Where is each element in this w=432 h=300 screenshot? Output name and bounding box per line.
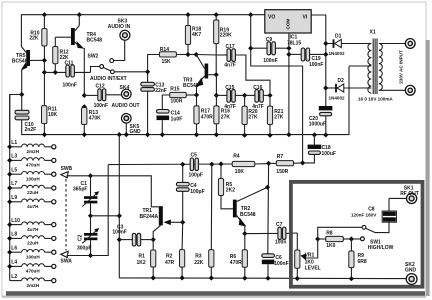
capacitor C4 100pF xyxy=(176,164,204,222)
svg-text:100nF: 100nF xyxy=(94,103,108,109)
node: TR4 emitter / C12 junction xyxy=(82,93,87,98)
svg-text:C17: C17 xyxy=(226,44,235,50)
svg-text:1N4002: 1N4002 xyxy=(329,96,346,101)
svg-text:100uH: 100uH xyxy=(26,176,40,181)
variable capacitor C1 365pF xyxy=(73,176,99,216)
node: bus C13 xyxy=(145,132,150,137)
node: bus R16 xyxy=(214,132,219,137)
node: rail junction at C9 stem xyxy=(248,12,253,17)
resistor R12 22K xyxy=(53,37,71,72)
transformer X1 xyxy=(349,29,405,101)
svg-text:100pF: 100pF xyxy=(190,189,204,195)
node: bus SK5 xyxy=(124,132,129,137)
node: bus IC1 COM xyxy=(286,132,291,137)
resistor R18 4K7 xyxy=(185,15,201,55)
capacitor C12 100nF xyxy=(84,84,121,109)
wire: main 0V bus xyxy=(22,66,349,134)
svg-text:R2: R2 xyxy=(166,254,173,260)
svg-text:LEVEL: LEVEL xyxy=(305,265,321,271)
node: stem C3 tap xyxy=(117,237,122,242)
svg-text:L1: L1 xyxy=(11,140,17,146)
jack SK3 AUDIO IN xyxy=(108,18,131,40)
svg-text:R3: R3 xyxy=(195,254,202,260)
node: C1/C2 junction xyxy=(88,213,93,218)
node: C4 top junction xyxy=(180,162,185,167)
capacitor C10 2n2F xyxy=(15,95,36,134)
capacitor C16 4n7F xyxy=(245,85,270,110)
node: bottom bus R6 xyxy=(242,276,247,281)
wire C1/C2 node to ground stem xyxy=(91,215,120,217)
svg-text:C12: C12 xyxy=(96,84,105,90)
svg-text:22uH: 22uH xyxy=(27,241,39,246)
resistor R9 6R8 xyxy=(349,239,367,279)
inductor L6 100uH xyxy=(10,245,56,259)
svg-text:4u7H: 4u7H xyxy=(27,204,39,209)
svg-text:BC548: BC548 xyxy=(87,37,103,43)
node: TR3 base junction xyxy=(194,52,199,57)
svg-text:BF244A: BF244A xyxy=(140,214,159,220)
svg-text:L3: L3 xyxy=(11,154,17,160)
inductor L1 2m2H xyxy=(10,140,56,154)
resistor R1 1K2 xyxy=(137,240,156,278)
svg-text:470R: 470R xyxy=(230,260,242,266)
node: R11 top / C11 junction xyxy=(42,70,47,75)
svg-text:SW2: SW2 xyxy=(88,54,99,60)
wire R10 node down to R11 xyxy=(43,60,45,72)
resistor R4 10K xyxy=(232,154,268,176)
wire SW2 pole to C13 node xyxy=(114,71,147,73)
node: R8 left junction xyxy=(315,236,320,241)
node: bus tap L8 xyxy=(7,236,12,241)
svg-text:R14: R14 xyxy=(160,47,169,53)
node: bus R13 xyxy=(82,132,87,137)
capacitor C15 4n7F xyxy=(216,85,244,110)
svg-text:2m2H: 2m2H xyxy=(27,149,40,154)
node: rail junction at TR4 collector xyxy=(77,12,82,17)
node: SWA/C2 junction xyxy=(88,253,93,258)
diode D2 1N4002 xyxy=(326,78,366,101)
svg-text:L2: L2 xyxy=(11,274,17,280)
node: R4/R7 junction xyxy=(266,161,271,166)
svg-text:27K: 27K xyxy=(248,115,258,121)
svg-text:R7: R7 xyxy=(277,154,284,160)
node: bus R17 xyxy=(194,132,199,137)
svg-text:L10: L10 xyxy=(11,218,20,224)
svg-text:1K2: 1K2 xyxy=(137,260,146,266)
node: bus tap L10 xyxy=(7,222,12,227)
svg-text:16 0 16V 100mA: 16 0 16V 100mA xyxy=(358,97,393,102)
svg-text:1u0F: 1u0F xyxy=(171,116,183,122)
svg-text:120nF 160V: 120nF 160V xyxy=(351,212,377,217)
svg-text:AUDIO IN: AUDIO IN xyxy=(108,24,131,30)
node: bus D-line xyxy=(323,132,328,137)
svg-text:220K: 220K xyxy=(220,33,232,39)
svg-text:22K: 22K xyxy=(29,36,39,42)
box: output attenuator enclosure xyxy=(291,182,423,287)
resistor R8 1K0 xyxy=(318,227,362,249)
svg-text:15K: 15K xyxy=(162,59,172,65)
svg-text:C9: C9 xyxy=(266,37,273,43)
capacitor C11 100nF xyxy=(63,61,91,89)
svg-text:X1: X1 xyxy=(370,29,376,35)
jack SK5 GND xyxy=(122,114,142,135)
svg-text:100uH: 100uH xyxy=(26,254,40,259)
svg-text:2m2H: 2m2H xyxy=(27,283,40,288)
inductor L8 22uH xyxy=(10,232,56,246)
resistor R3 22K xyxy=(194,164,214,278)
node: bottom bus R3 xyxy=(209,275,214,280)
wire C17 feedback path to R21 node xyxy=(235,55,270,95)
resistor R5 2K2 xyxy=(218,164,235,209)
node: rail junction at R19 xyxy=(214,12,219,17)
inductor L4 470uH xyxy=(10,260,56,274)
resistor R6 470R xyxy=(230,234,248,278)
svg-text:GND: GND xyxy=(130,129,142,135)
inductor L2 2m2H xyxy=(10,274,56,288)
node: R16 top / C15 wire junction xyxy=(214,93,219,98)
svg-text:150R: 150R xyxy=(276,169,288,175)
svg-text:78L15: 78L15 xyxy=(287,40,301,46)
node: bus tap L4 xyxy=(7,264,12,269)
node: bus tap L3 xyxy=(7,158,12,163)
wire emitter node to C7 xyxy=(245,232,278,234)
svg-text:L5: L5 xyxy=(11,167,17,173)
inductor L5 100uH xyxy=(10,167,56,181)
svg-text:100nF: 100nF xyxy=(274,261,288,267)
svg-text:C16: C16 xyxy=(253,85,262,91)
label 230V AC INPUT xyxy=(399,50,404,84)
node: bottom bus VR1 xyxy=(295,276,300,281)
node: bus tap L1 xyxy=(7,144,12,149)
svg-text:BC548: BC548 xyxy=(12,58,28,64)
svg-text:L4: L4 xyxy=(11,260,17,266)
resistor R14 15K xyxy=(148,47,188,72)
node: bottom bus R2 xyxy=(180,275,185,280)
node: TR3 collector / R19 junction xyxy=(214,72,219,77)
svg-text:4u7H: 4u7H xyxy=(27,227,39,232)
svg-text:L7: L7 xyxy=(11,181,17,187)
node: bus ground stem xyxy=(117,132,122,137)
capacitor C8 120nF 160V xyxy=(351,198,397,222)
jack SK1 RF OUT xyxy=(389,185,419,203)
resistor R10 22K xyxy=(29,15,47,61)
svg-text:GND: GND xyxy=(405,267,417,273)
svg-text:SWB: SWB xyxy=(61,166,73,172)
wire SWA node to VFO tuned line xyxy=(91,165,109,256)
svg-text:D1: D1 xyxy=(335,33,342,39)
node: TR2 collector tap xyxy=(265,185,270,190)
svg-text:100nF: 100nF xyxy=(112,229,126,235)
node: stem C1/C2 tap xyxy=(117,213,122,218)
terminal: AC input bottom xyxy=(405,85,415,95)
capacitor C19 100nF xyxy=(289,48,326,68)
resistor R16 27K xyxy=(214,75,231,135)
svg-text:C2: C2 xyxy=(78,234,84,241)
capacitor C14 1u0F xyxy=(157,110,183,135)
transistor TR3 xyxy=(183,55,216,96)
node: bottom bus C6 xyxy=(265,276,270,281)
node: R7 right / C18 / +15V junction xyxy=(300,160,305,165)
svg-text:4n7F: 4n7F xyxy=(224,104,236,110)
wire VI to rectifier line xyxy=(311,15,326,106)
node: SW2/R14/C13 junction xyxy=(145,69,150,74)
resistor R20 27K xyxy=(242,95,258,135)
svg-text:470K: 470K xyxy=(89,116,101,122)
svg-text:RF OUT: RF OUT xyxy=(400,191,419,197)
svg-text:22nF: 22nF xyxy=(155,88,167,94)
svg-text:100pF: 100pF xyxy=(189,172,203,178)
svg-text:L8: L8 xyxy=(11,232,17,238)
node: C19 right junction xyxy=(323,52,328,57)
svg-text:R15: R15 xyxy=(170,86,179,92)
capacitor C5 100pF xyxy=(189,153,203,179)
node: C3 right / R1 / TR1 source junction xyxy=(151,237,156,242)
wire TR5 emitter node to inductor bus xyxy=(10,95,22,148)
svg-text:BC548: BC548 xyxy=(183,83,199,89)
capacitor C9 100nF xyxy=(251,37,289,64)
wire: ground stem xyxy=(118,135,120,278)
svg-text:C7: C7 xyxy=(276,222,283,228)
capacitor C3 100nF xyxy=(112,225,153,246)
svg-text:C11: C11 xyxy=(65,61,74,67)
svg-text:C15: C15 xyxy=(225,85,234,91)
node: R12 bottom junction xyxy=(53,70,58,75)
capacitor C6 100nF xyxy=(262,254,289,278)
wire: +15V feed to VFO section xyxy=(251,15,303,163)
jack SK4 AUDIO OUT xyxy=(112,85,140,109)
switch SWB wiper xyxy=(61,166,91,178)
wire: VFO node line y=164 xyxy=(108,163,232,166)
wire R18 node to TR3 base node xyxy=(188,54,196,56)
node: R21 top junction xyxy=(267,93,272,98)
svg-text:SWA: SWA xyxy=(61,258,73,264)
svg-text:365pF: 365pF xyxy=(73,187,87,193)
svg-text:SK4: SK4 xyxy=(120,85,130,91)
svg-text:HIGH/LOW: HIGH/LOW xyxy=(368,245,394,251)
svg-text:L9: L9 xyxy=(11,195,17,201)
svg-text:10K: 10K xyxy=(235,169,245,175)
regulator IC1 78L15 xyxy=(265,10,311,135)
svg-text:BC548: BC548 xyxy=(240,212,256,218)
svg-text:R1: R1 xyxy=(139,254,146,260)
node: D1 junction xyxy=(323,41,328,46)
svg-text:100R: 100R xyxy=(171,98,183,104)
svg-text:27K: 27K xyxy=(221,114,231,120)
svg-text:470uH: 470uH xyxy=(26,163,40,168)
node: R13 top junction xyxy=(82,104,87,109)
transistor TR5 xyxy=(12,47,44,95)
resistor R11 10K xyxy=(42,72,58,134)
svg-text:2K2: 2K2 xyxy=(226,187,235,193)
jack SK2 GND xyxy=(405,262,417,284)
switch SW2 xyxy=(88,54,127,82)
node: rail junction at R10 xyxy=(42,12,47,17)
capacitor C20 1000uF xyxy=(309,106,333,135)
resistor R2 47K xyxy=(165,222,185,278)
capacitor C13 22nF xyxy=(141,72,167,135)
wire SWB node to TR1 drain xyxy=(91,176,159,207)
transistor TR4 xyxy=(71,15,102,96)
wire R4/R7 node down through collector tap to C6 xyxy=(267,163,270,253)
resistor R13 470K xyxy=(82,108,102,135)
node: bus tap L6 xyxy=(7,250,12,255)
capacitor C7 100n xyxy=(275,222,297,245)
node: D2 / C20 junction xyxy=(323,85,328,90)
transistor TR1 BF244A xyxy=(140,206,183,239)
wire: +15V top rail xyxy=(21,15,264,47)
svg-text:27K: 27K xyxy=(274,115,284,121)
svg-text:4n7F: 4n7F xyxy=(252,104,264,110)
svg-text:100uF: 100uF xyxy=(322,151,336,157)
wire TR3 base node to C17 xyxy=(196,54,218,57)
svg-text:AUDIO OUT: AUDIO OUT xyxy=(112,103,140,109)
svg-text:22K: 22K xyxy=(194,260,204,266)
inductor L3 470uH xyxy=(10,154,56,168)
node: bus R20 xyxy=(242,133,247,138)
svg-text:1K0: 1K0 xyxy=(326,243,335,249)
svg-text:6R8: 6R8 xyxy=(358,259,367,265)
node: R4 left junction xyxy=(218,161,223,166)
transistor TR2 xyxy=(233,187,268,233)
terminal: AC input top xyxy=(405,39,415,49)
variable capacitor C2 300pF xyxy=(77,216,99,256)
node: R18 bottom junction xyxy=(185,52,190,57)
node: bus R11 xyxy=(42,132,47,137)
node: TR5 base / R10-R11 junction xyxy=(42,58,47,63)
node: C9 left junction xyxy=(248,46,253,51)
wire SW2 to SK3 xyxy=(114,40,125,60)
svg-text:L6: L6 xyxy=(11,245,17,251)
node: C19 left / COM junction xyxy=(286,52,291,57)
svg-text:4K7: 4K7 xyxy=(192,32,201,38)
resistor R15 100R xyxy=(162,86,196,109)
node: bus tap L5 xyxy=(7,172,12,177)
node: R20 top junction xyxy=(242,93,247,98)
svg-text:100nF: 100nF xyxy=(63,83,77,89)
wire: gang dashed link SWB-SWA xyxy=(65,179,67,251)
svg-text:47R: 47R xyxy=(165,260,175,266)
potentiometer VR1 1K0 LEVEL xyxy=(295,233,321,279)
svg-text:VO: VO xyxy=(268,14,275,20)
svg-text:10K: 10K xyxy=(48,112,58,118)
resistor R21 27K xyxy=(267,95,283,135)
inductor L9 4u7H xyxy=(10,195,56,209)
capacitor C17 4n7F xyxy=(218,44,236,68)
node: C10 top junction xyxy=(19,92,24,97)
diode D1 1N4002 xyxy=(326,33,366,55)
svg-text:2n2F: 2n2F xyxy=(25,127,37,133)
node: bottom bus R1 xyxy=(151,275,156,280)
svg-text:COM: COM xyxy=(286,19,291,30)
node: TR2 emitter junction xyxy=(242,231,247,236)
switch SW1 HIGH/LOW xyxy=(351,222,393,252)
svg-text:VR1: VR1 xyxy=(305,252,315,258)
capacitor C18 100uF xyxy=(303,135,336,163)
node: bottom bus R9 xyxy=(349,276,354,281)
node: bus C18 xyxy=(312,132,317,137)
svg-text:100nF: 100nF xyxy=(263,58,277,64)
node: bus C14 xyxy=(160,132,165,137)
svg-text:AUDIO INT/EXT: AUDIO INT/EXT xyxy=(90,76,127,82)
svg-text:D2: D2 xyxy=(338,78,345,84)
svg-text:470R: 470R xyxy=(201,114,213,120)
svg-text:22uH: 22uH xyxy=(27,190,39,195)
svg-text:300pF: 300pF xyxy=(77,245,91,251)
svg-text:100n: 100n xyxy=(275,240,286,246)
wire: inductor bank bus xyxy=(9,95,11,281)
node: TR1 gate junction xyxy=(180,220,185,225)
node: bus tap L7 xyxy=(7,185,12,190)
svg-text:1000uF: 1000uF xyxy=(309,122,326,128)
svg-text:R8: R8 xyxy=(326,230,333,236)
node: rail junction at R18 xyxy=(185,12,190,17)
node: R8 right / R9 junction xyxy=(349,236,354,241)
node: TR3 emitter / R15 / R17 junction xyxy=(194,92,199,97)
inductor L10 4u7H xyxy=(10,218,56,232)
node: C5 right junction xyxy=(209,162,214,167)
svg-text:R4: R4 xyxy=(233,154,240,160)
svg-text:C5: C5 xyxy=(191,153,198,159)
node: bus R21 xyxy=(267,133,272,138)
inductor L7 22uH xyxy=(10,181,56,195)
svg-text:470uH: 470uH xyxy=(26,269,40,274)
node: C1 top junction xyxy=(88,173,93,178)
switch SWA wiper xyxy=(61,251,91,264)
resistor R19 220K xyxy=(214,15,233,75)
svg-text:4n7F: 4n7F xyxy=(224,62,236,68)
svg-text:100nF: 100nF xyxy=(309,62,323,68)
svg-text:1N4002: 1N4002 xyxy=(329,51,346,56)
resistor R7 150R xyxy=(269,154,303,175)
node: C9 right / COM junction xyxy=(286,46,291,51)
svg-text:VI: VI xyxy=(303,14,308,20)
node: bus tap L9 xyxy=(7,199,12,204)
resistor R17 470R xyxy=(194,95,213,135)
svg-text:230V AC INPUT: 230V AC INPUT xyxy=(399,50,404,84)
svg-text:C18: C18 xyxy=(322,145,331,151)
wire node to C11 xyxy=(44,71,65,73)
wire: bottom 0V bus xyxy=(119,277,405,280)
